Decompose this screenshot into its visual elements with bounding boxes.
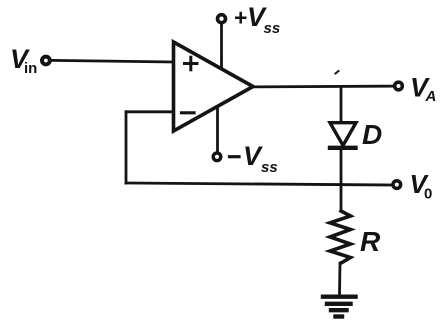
op-amp <box>174 42 254 131</box>
svg-text:V: V <box>243 141 263 171</box>
wire -Vss supply <box>216 107 219 152</box>
ground <box>323 297 356 317</box>
wire resistor to ground <box>338 263 341 295</box>
wire op-amp output to VA <box>253 85 394 89</box>
label -Vss <box>230 141 278 176</box>
label V0 <box>410 169 433 203</box>
label Vin <box>10 44 37 77</box>
wire diode branch upper <box>340 87 343 123</box>
diode D <box>330 123 356 148</box>
artifact speck <box>336 71 339 74</box>
op-amp minus pin mark <box>182 111 195 114</box>
wire inverting input <box>126 110 173 113</box>
svg-text:ss: ss <box>264 20 281 37</box>
terminal Vin <box>42 57 50 65</box>
svg-text:0: 0 <box>424 186 432 203</box>
label +Vss <box>234 2 280 37</box>
terminal VA <box>395 82 403 90</box>
svg-text:D: D <box>362 119 382 150</box>
op-amp plus pin mark <box>185 57 198 70</box>
svg-text:+: + <box>234 5 247 31</box>
resistor R <box>330 211 351 263</box>
wire Vin to op-amp non-inverting input <box>53 60 174 62</box>
wire diode cathode to V0 net <box>340 149 343 185</box>
svg-text:A: A <box>425 88 437 105</box>
wire bottom V0 net <box>126 183 392 185</box>
svg-text:R: R <box>360 226 381 257</box>
svg-text:in: in <box>24 60 37 77</box>
wire feedback vertical <box>125 112 128 183</box>
wire V0 net to resistor <box>340 185 343 211</box>
terminal +Vss <box>218 15 226 23</box>
wire +Vss supply <box>220 25 223 69</box>
svg-text:ss: ss <box>261 159 278 176</box>
terminal V0 <box>393 181 401 189</box>
terminal -Vss <box>213 153 221 161</box>
label VA <box>410 73 436 106</box>
